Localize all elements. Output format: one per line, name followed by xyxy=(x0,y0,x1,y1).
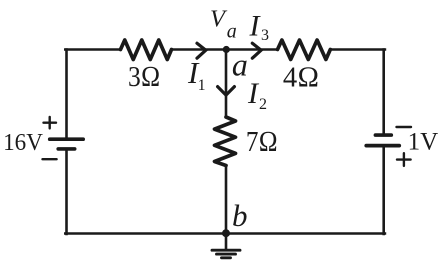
svg-text:1V: 1V xyxy=(408,129,439,156)
svg-text:V: V xyxy=(210,6,228,33)
svg-text:a: a xyxy=(227,20,237,42)
svg-text:I: I xyxy=(249,9,262,42)
svg-text:3Ω: 3Ω xyxy=(128,61,160,93)
svg-text:b: b xyxy=(232,198,248,233)
svg-text:1: 1 xyxy=(198,77,206,94)
svg-text:2: 2 xyxy=(259,96,267,113)
svg-text:16V: 16V xyxy=(3,129,43,156)
svg-text:3: 3 xyxy=(261,27,269,44)
svg-text:7Ω: 7Ω xyxy=(246,126,278,158)
svg-text:a: a xyxy=(232,47,248,83)
svg-text:4Ω: 4Ω xyxy=(283,62,319,94)
